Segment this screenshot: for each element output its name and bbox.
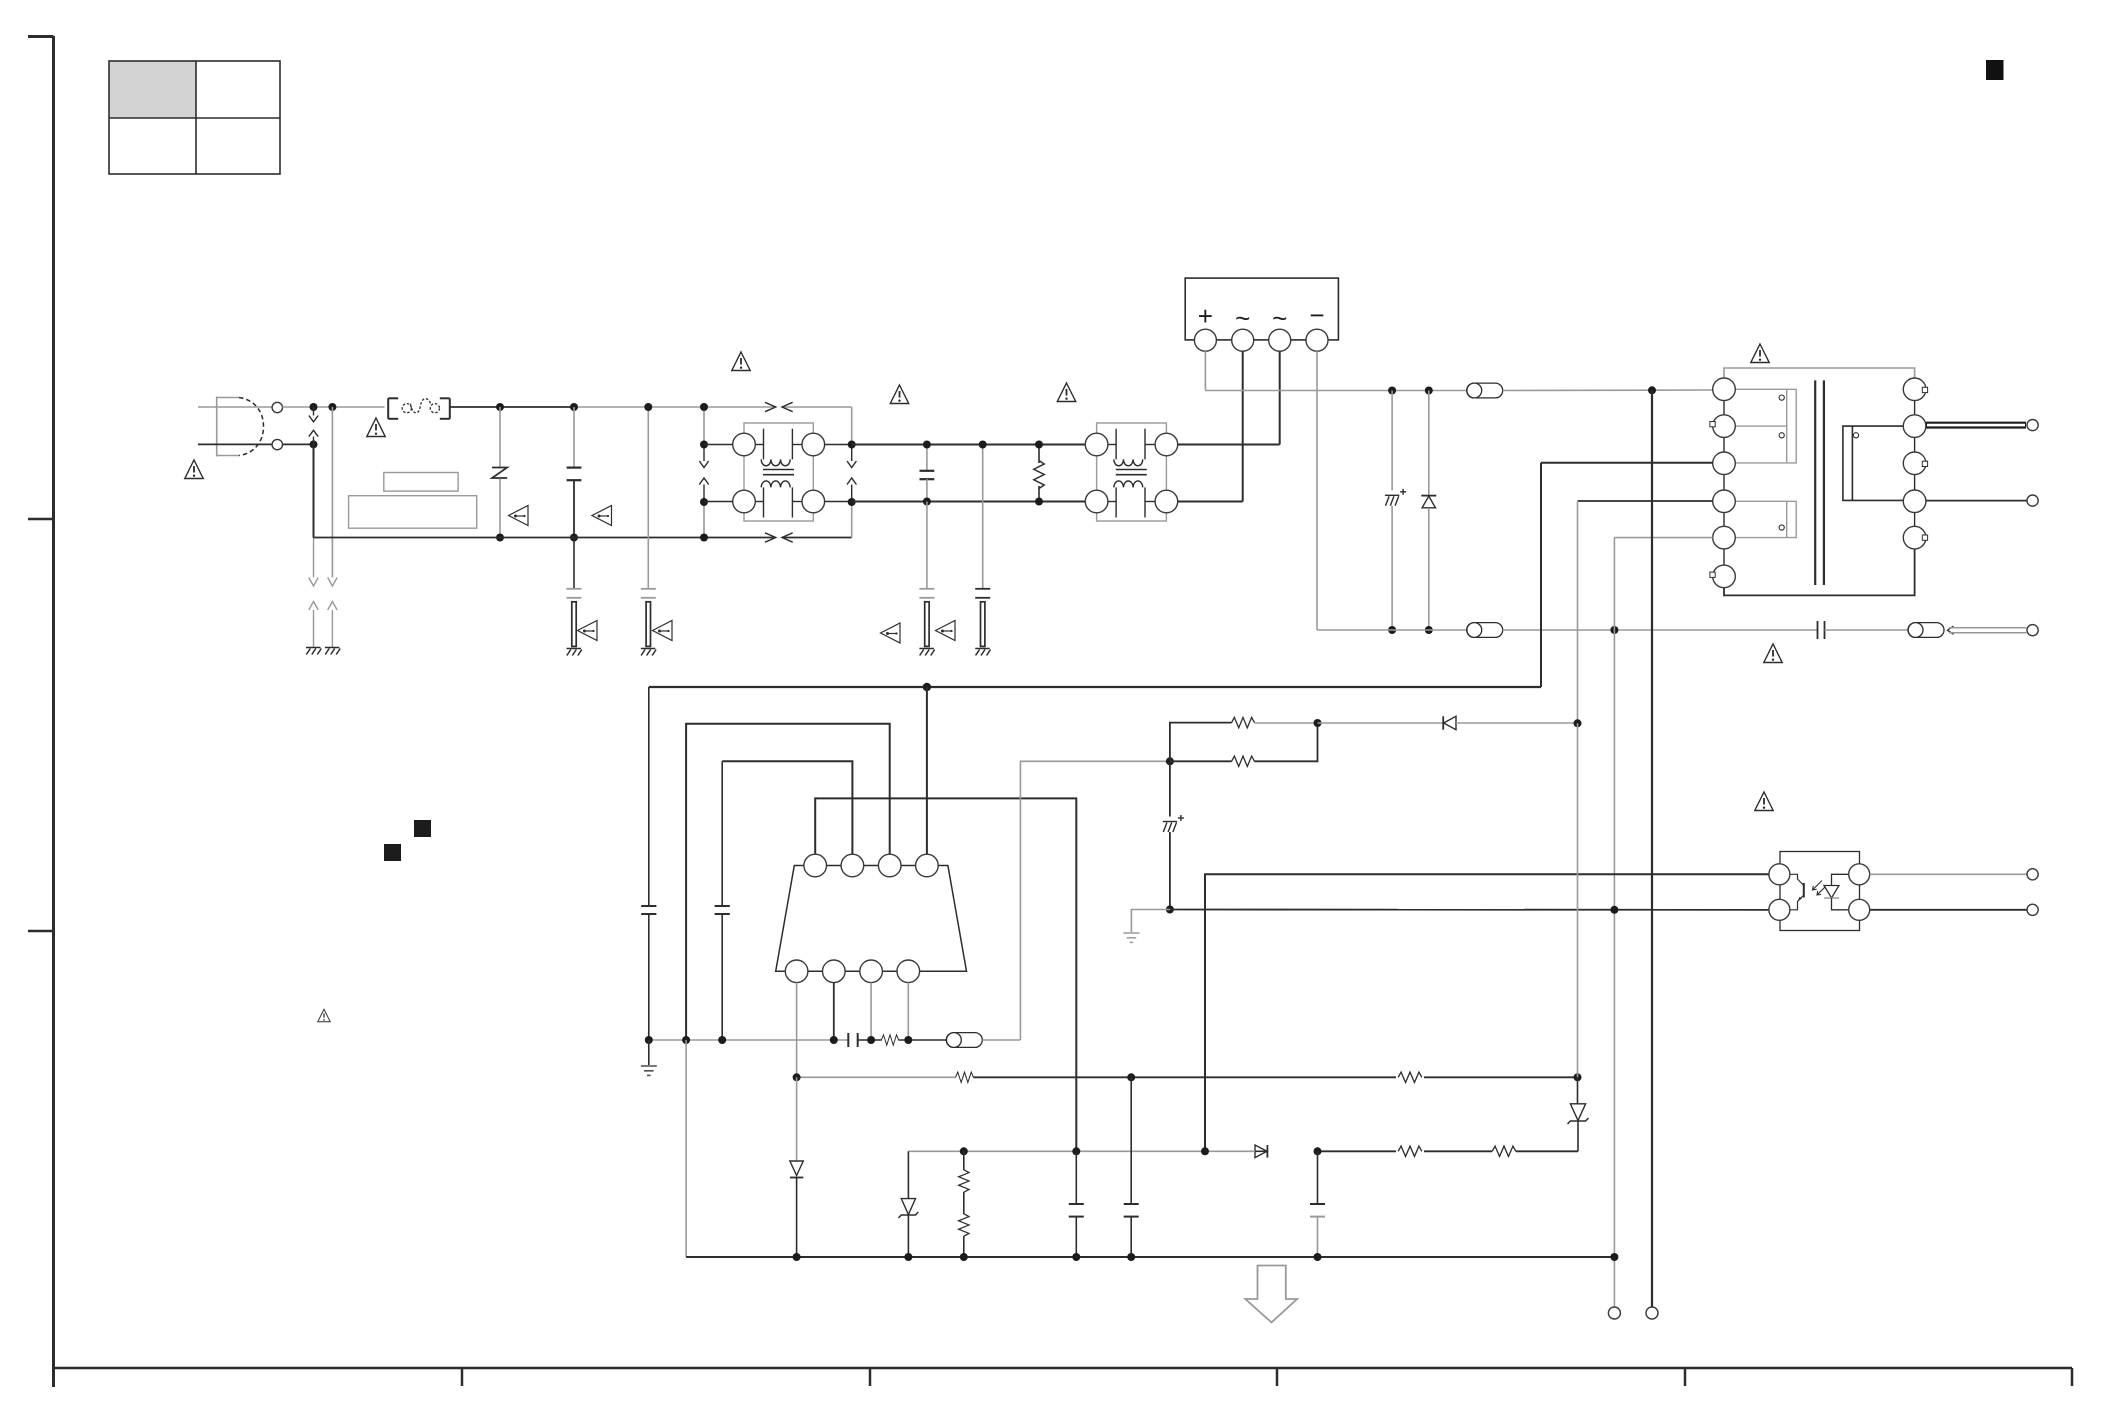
diode DB on y1151 (points right): [1255, 1145, 1267, 1158]
filter1 core bars: [763, 470, 794, 475]
warning triangle below - rail cap: [1764, 644, 1782, 663]
relay outline box large: [349, 496, 477, 529]
bottom tick 4: [1684, 1368, 1687, 1386]
filter1 output rail x851.7: [847, 407, 856, 538]
ground cap column x648: [641, 407, 656, 646]
ground symbol x982.7: [975, 649, 990, 656]
ground cap column x926.9: [919, 502, 934, 647]
filter1 winding bottom: [755, 481, 802, 518]
node y1040 x833.8: [830, 1036, 838, 1044]
page border bottom horizontal line: [54, 1367, 2073, 1370]
resistor y1151 left: [1398, 1146, 1422, 1156]
transformer left pin 3: [1713, 452, 1736, 475]
node y1257 x796.6: [793, 1253, 801, 1261]
transformer left pin 4: [1713, 490, 1736, 513]
wire pin4 feed horizontal: [1578, 500, 1713, 502]
warning triangle above transformer: [1751, 344, 1769, 363]
ground symbol x926.9: [919, 649, 934, 656]
node x982 top: [979, 441, 987, 449]
bottom tick 2: [869, 1368, 872, 1386]
black square marker mid-left upper: [414, 820, 431, 837]
IC pin top 3: [878, 854, 901, 877]
node x-cap bottom: [923, 498, 931, 506]
plug top contact circle: [272, 402, 282, 412]
IC pin bottom 7: [860, 960, 883, 983]
terminal pin +: [1194, 329, 1216, 351]
warning triangle above filter2: [1057, 383, 1075, 402]
diode DA (points left): [1443, 716, 1456, 729]
vertical x1577 mid segment: [1577, 723, 1579, 1077]
wire ~1 terminal down to filter2: [1242, 351, 1244, 501]
+ rail wire right part: [1503, 389, 1713, 392]
node - rail / MOV: [1388, 626, 1396, 634]
node y1151 x1318: [1314, 1147, 1322, 1155]
twisted output lead (double line): [1949, 628, 2027, 633]
node y1151 x963.8: [960, 1147, 968, 1155]
optocoupler pin right bottom: [1849, 899, 1870, 920]
warning triangle above x-cap section: [890, 385, 908, 404]
IC pin top 4: [916, 854, 939, 877]
bead on y1040: [946, 1033, 982, 1048]
wire IC pin8 drop: [907, 983, 909, 1040]
node x1577 y723: [1574, 719, 1582, 727]
left triangle marker near cap x574: [592, 506, 612, 526]
bottom lead x1614: [1613, 1257, 1615, 1308]
wire y1077 left segment: [797, 1076, 956, 1078]
vertical bus x1652: [1651, 390, 1653, 1307]
node output rail row1: [848, 441, 856, 449]
node y1257 x908.4: [904, 1253, 912, 1261]
optocoupler PC1 box: [1780, 852, 1860, 931]
neutral bottom wire: [314, 537, 776, 539]
secondary heavy output terminal: [2027, 420, 2038, 431]
warning triangle above optocoupler: [1755, 792, 1773, 811]
pin number square left pin2: [1710, 422, 1715, 427]
node y1257 x1076.3: [1072, 1253, 1080, 1261]
IC pin bottom 8: [897, 960, 920, 983]
transformer top arch wire: [1724, 368, 1915, 379]
node resistor top: [1035, 441, 1043, 449]
wire y1077 mid segment: [974, 1076, 1397, 1078]
node pin5 y1077: [793, 1073, 801, 1081]
node y687 to IC pin4: [923, 683, 931, 691]
terminal block outline: [1185, 278, 1338, 340]
wire filter1 pin2 to output rail: [825, 444, 852, 446]
wire diode DA to x1577: [1456, 722, 1578, 724]
fuse F1: [388, 398, 450, 419]
black square marker mid-left lower: [384, 844, 401, 861]
wire pin3 feed horizontal: [1541, 462, 1713, 464]
warning triangle near plug: [185, 460, 203, 479]
wire D from IC pin1: [815, 798, 1076, 1151]
plug line (bottom) stub: [198, 443, 272, 445]
wire rail to filter1 pin3: [704, 501, 733, 503]
IC pin top 2: [841, 854, 864, 877]
transformer left pin chain: [1723, 389, 1725, 576]
transformer left pin 1: [1713, 378, 1736, 401]
node y1077 x1577: [1574, 1073, 1582, 1081]
bottom right end tick: [2071, 1368, 2074, 1386]
node y1040 x648.8: [645, 1036, 653, 1044]
secondary winding box: [1843, 426, 1903, 500]
main switching wire y687: [649, 686, 1541, 688]
capacitor C x574 lower wire: [573, 480, 575, 537]
capacitor C x574 upper wire: [573, 407, 575, 468]
transformer left pin 2: [1713, 415, 1736, 438]
wire IC pin7 drop: [870, 983, 872, 1040]
bleeder resistor column x1039: [1034, 445, 1044, 502]
node N top wire: [328, 403, 336, 411]
ground symbol x648: [641, 649, 656, 656]
bead on - rail: [1467, 623, 1503, 638]
- rail wire left part: [1317, 629, 1467, 631]
wire y909.5 to optocoupler: [1170, 909, 1769, 911]
AC plug body: [217, 397, 264, 457]
page border left vertical line: [52, 36, 55, 1387]
ground symbol x574: [567, 649, 582, 656]
wire x313 bottom node down to neutral wire: [313, 444, 315, 537]
phase dot primary 2: [1779, 433, 1784, 438]
series resistor on y1040: [881, 1035, 898, 1045]
earth ground symbol x1131: [1123, 933, 1139, 942]
page border fold tick upper: [28, 518, 54, 521]
filter1 pin 2: [802, 433, 825, 456]
varistor Z column lower wire: [499, 479, 501, 538]
opto output wire bottom: [1870, 909, 2027, 911]
node top x500: [496, 403, 504, 411]
resistor on y1077 left: [956, 1072, 974, 1082]
wire y1151 resistor to node x1318: [1318, 1150, 1397, 1152]
terminal pin ~1: [1232, 329, 1254, 351]
capacitor C x574 plates: [567, 468, 582, 481]
left triangle marker near x982 ground: [936, 621, 956, 641]
node y1257 x1317.5: [1314, 1253, 1322, 1261]
filter2 pin 2: [1155, 433, 1178, 456]
node rail x704 pin row 1: [700, 441, 708, 449]
filter1 pin 4: [802, 490, 825, 513]
open terminal x1652: [1646, 1307, 1658, 1319]
filter1 pin 1: [733, 433, 756, 456]
filter1 L1 box: [744, 423, 813, 521]
series timing cap on y1040: [848, 1033, 857, 1047]
spark gap to ground at x332: [328, 578, 337, 648]
left triangle marker near x926 ground: [881, 623, 901, 643]
node rail x704 bottom: [700, 534, 708, 542]
wire node to diode DA: [1318, 722, 1444, 724]
secondary return terminal: [2027, 495, 2038, 506]
wire + terminal down: [1204, 351, 1206, 390]
node + rail / diode: [1425, 387, 1433, 395]
node rail x704 pin row 2: [700, 498, 708, 506]
page border top tick: [28, 35, 54, 38]
resistor on y1077 right: [1398, 1072, 1422, 1082]
vertical bus x1541: [1540, 463, 1542, 687]
X capacitor column x926.9: [920, 445, 935, 502]
filter1 input rail x704: [699, 407, 708, 538]
series capacitor on - rail: [1818, 621, 1825, 639]
filter1 pin 3: [733, 490, 756, 513]
smoothing cap column x1392: [1385, 391, 1406, 631]
vcc cap column x1169.9: [1163, 761, 1184, 909]
earth ground below x648.8: [648, 1040, 650, 1065]
wire B to IC pin2: [722, 761, 852, 855]
wire filter1 pin4 to output rail: [825, 501, 852, 503]
wire y1040 cap to resistor: [858, 1039, 882, 1041]
node top x648: [644, 403, 652, 411]
node y1040 x908.3: [904, 1036, 912, 1044]
wire pin5 feed horizontal: [1614, 537, 1712, 539]
node x1318 y723: [1314, 719, 1322, 727]
filter2 L2 box: [1097, 423, 1167, 521]
node resistor bottom: [1035, 498, 1043, 506]
transformer right pin 3: [1903, 452, 1926, 475]
node y1040 x686: [682, 1036, 690, 1044]
opto output wire top: [1870, 873, 2027, 875]
node top x574: [570, 403, 578, 411]
small arrow after output bead: [1948, 626, 1954, 634]
node - rail x1614: [1610, 626, 1618, 634]
spark gap between lines at x313: [309, 407, 318, 444]
transformer right pin 5: [1903, 526, 1926, 549]
filter2 winding bottom: [1108, 481, 1155, 518]
opto output terminal top: [2027, 869, 2038, 880]
wire y874 to optocoupler: [1205, 874, 1769, 1151]
svg-text:~: ~: [1272, 303, 1287, 333]
ground cap column x574 below: [567, 538, 582, 647]
transformer right pin 1: [1903, 378, 1926, 401]
spark gap to ground at x313: [309, 538, 318, 648]
resistor RB y761.3: [1170, 723, 1318, 767]
optocoupler light arrows: [1813, 881, 1827, 896]
wire ~2 terminal down to filter2: [1279, 351, 1281, 444]
optocoupler LED: [1824, 874, 1849, 910]
resistor RA y722.6: [1232, 717, 1255, 727]
bottom tick 1: [461, 1368, 464, 1386]
wire filter2 pin4 to ~1 riser: [1178, 501, 1243, 503]
vcc resistor upper branch: [1170, 723, 1232, 762]
node x-cap top: [923, 441, 931, 449]
node y1257 x1614.4: [1610, 1253, 1618, 1261]
node - rail / diode: [1425, 626, 1433, 634]
wire IC pin4 riser: [926, 687, 928, 855]
warning triangle below fuse: [367, 418, 385, 437]
left triangle marker near x574 ground: [578, 621, 598, 641]
page border fold tick lower: [28, 930, 54, 933]
secondary ground bus riser x686: [685, 1040, 687, 1257]
node x1169.9 y761: [1166, 757, 1174, 765]
node plug bottom: [310, 440, 318, 448]
plug bottom contact circle: [272, 439, 282, 449]
bead on + rail: [1467, 383, 1503, 398]
phase dot primary aux: [1779, 525, 1784, 530]
wire y1151 between resistors: [1424, 1150, 1492, 1152]
wire x332 vertical down: [331, 407, 333, 578]
wire y1151 main run: [908, 1150, 1255, 1152]
wire diode DB to node x1318: [1255, 1150, 1267, 1152]
optocoupler pin right top: [1849, 864, 1870, 885]
black square marker top-right: [1986, 60, 2004, 80]
node y1151 x1205: [1201, 1147, 1209, 1155]
rectifier diode column x1428.8: [1421, 391, 1436, 631]
pin number square left pin6: [1710, 572, 1715, 577]
secondary return wire: [1926, 500, 2027, 502]
wire A to IC pin3: [686, 724, 890, 1040]
wire y1151 from zener to resistor: [1516, 1150, 1578, 1152]
filter2 pin 4: [1155, 490, 1178, 513]
bottom tick 3: [1276, 1368, 1279, 1386]
connector pair on bottom wire: [765, 533, 793, 542]
wire plug bottom to node: [283, 443, 314, 445]
- rail wire to bead: [1825, 629, 1909, 631]
left triangle marker near x648 ground: [653, 621, 673, 641]
filter2 pin 3: [1085, 490, 1108, 513]
decoupling cap column x722.2: [715, 761, 730, 1040]
svg-text:~: ~: [1235, 303, 1250, 333]
pin number square right pin5: [1922, 535, 1927, 540]
pin number square right pin1: [1922, 387, 1927, 392]
warning triangle above filter 1: [732, 352, 750, 371]
relay outline box small: [384, 473, 458, 492]
vertical bus x1614: [1613, 538, 1615, 1257]
primary winding box upper: [1735, 389, 1796, 463]
filter1 winding top: [755, 429, 802, 466]
cap column x1131.2: [1124, 1077, 1139, 1257]
zener ZD1 column x908.4: [899, 1151, 919, 1257]
output cap column x1317.5: [1310, 1151, 1325, 1257]
- rail wire mid part: [1503, 629, 1818, 631]
transformer left pin 5: [1713, 526, 1736, 549]
wire y1077 right segment: [1424, 1076, 1578, 1078]
wire y1040 resistor to bead: [898, 1039, 946, 1041]
node y1151 x1076.3: [1072, 1147, 1080, 1155]
transformer right pin 4: [1903, 490, 1926, 513]
feedback riser x1020: [1020, 761, 1170, 1040]
wire filters top link: [852, 444, 1086, 446]
transformer core bars: [1815, 380, 1824, 585]
resistor y1151 right: [1492, 1146, 1516, 1156]
node rail x704 top: [700, 403, 708, 411]
filter2 pin 1: [1085, 433, 1108, 456]
vertical bus x1577 upper: [1577, 501, 1579, 723]
wire filter2 pin2 to ~2 riser: [1178, 444, 1280, 446]
left triangle marker near varistor: [509, 506, 529, 526]
wire minus terminal down: [1316, 351, 1318, 630]
wire fuse to filter rail: [450, 406, 574, 408]
ground symbol x332: [325, 648, 340, 655]
IC pin top 1: [804, 854, 827, 877]
zener ZD2 column x1577: [1568, 1077, 1589, 1151]
opto output terminal bottom: [2027, 904, 2038, 915]
wire filters bottom link: [852, 501, 1086, 503]
wire RA to node x1318: [1254, 722, 1317, 724]
small warning triangle mid-left: [318, 1009, 331, 1022]
node L top wire: [310, 403, 318, 411]
phase dot secondary: [1853, 433, 1858, 438]
node y1040 x722: [718, 1036, 726, 1044]
node bottom x500: [496, 534, 504, 542]
connector pair on top wire: [765, 402, 793, 411]
transformer right pin 2: [1903, 415, 1926, 438]
varistor Z column upper wire: [499, 407, 501, 467]
cap column x1076.3: [1069, 1151, 1084, 1257]
transformer bottom arch wire: [1724, 549, 1915, 596]
+ rail wire left part: [1205, 390, 1466, 392]
optocoupler pin left top: [1769, 864, 1790, 885]
varistor Z symbol: [492, 468, 507, 479]
node output rail row2: [848, 498, 856, 506]
terminal pin minus: [1306, 329, 1328, 351]
wire y1040 bead to corner: [982, 1039, 1020, 1041]
optocoupler phototransistor: [1790, 874, 1804, 910]
locator table gray cell: [109, 61, 196, 118]
wire plug top to fuse: [283, 406, 385, 408]
decoupling cap column x648.8: [641, 687, 656, 1040]
ground symbol x313: [306, 648, 321, 655]
IC ground bus y1040: [649, 1039, 849, 1041]
heavy secondary output wire: [1926, 422, 2026, 429]
ground stub from x1169.9: [1131, 910, 1170, 933]
node x1169.9 y909.5: [1166, 906, 1174, 914]
node bottom x574: [570, 534, 578, 542]
rectified diode column x796.6: [790, 1077, 803, 1257]
node + rail / MOV: [1388, 387, 1396, 395]
node y1077 x1131: [1127, 1073, 1135, 1081]
svg-text:+: +: [1198, 301, 1213, 331]
filter2 winding top: [1108, 429, 1155, 466]
optocoupler pin left bottom: [1769, 899, 1790, 920]
output terminal circle y630: [2027, 625, 2038, 636]
wire IC pin5 drop: [796, 983, 798, 1078]
filter2 core bars: [1116, 470, 1147, 475]
pin number square right pin3: [1922, 461, 1927, 466]
locator table outline: [109, 61, 280, 174]
secondary ground bus y1257: [686, 1256, 1614, 1258]
terminal pin ~2: [1269, 329, 1291, 351]
wire IC pin6 drop: [833, 983, 835, 1040]
transformer left pin 6: [1713, 565, 1736, 588]
IC U1 trapezoid body: [776, 866, 967, 972]
wire rail to filter1 pin1: [704, 444, 733, 446]
wire top continues gray: [574, 406, 776, 408]
node + rail to primary vertical: [1648, 386, 1656, 394]
node y1257 x1131.2: [1127, 1253, 1135, 1261]
svg-text:−: −: [1309, 300, 1324, 330]
primary winding box lower: [1735, 501, 1796, 537]
node y1040 x871: [867, 1036, 875, 1044]
node x1614 y909.8: [1610, 906, 1618, 914]
bead on - rail output: [1908, 623, 1944, 638]
divider resistor column x963.8: [959, 1151, 969, 1257]
phase dot primary 1: [1779, 395, 1784, 400]
open terminal x1614: [1608, 1307, 1620, 1319]
earth ground symbol x648.8: [641, 1066, 657, 1075]
transformer right pin chain: [1914, 389, 1916, 537]
IC pin bottom 6: [823, 960, 846, 983]
node y1257 x963.8: [960, 1253, 968, 1261]
plug line (top) stub: [198, 406, 272, 408]
big hollow arrow marker: [1245, 1266, 1297, 1323]
IC pin bottom 5: [785, 960, 808, 983]
ground cap column x982.7: [975, 445, 990, 647]
